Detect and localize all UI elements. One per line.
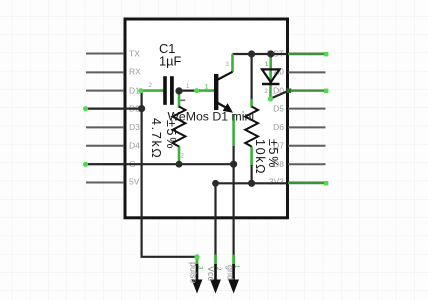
- transistor Q1 emitter lead: [217, 103, 228, 109]
- wire Vcc vertical and across 3V3 row (black): [216, 183, 288, 255]
- pin RX stub: [86, 71, 124, 73]
- green wire gnd drop: [232, 255, 235, 266]
- pin A0 stub: [288, 71, 325, 73]
- green wire 4.7k bottom lead: [178, 146, 181, 164]
- junction node 10k bottom 3V3: [248, 180, 255, 187]
- svg-text:3V3: 3V3: [269, 177, 284, 187]
- arrow pin Vcc: [210, 264, 221, 294]
- capacitor C1 minus mark: [180, 99, 185, 101]
- pin D4 stub: [86, 145, 124, 147]
- pin D0 stub: [288, 90, 325, 92]
- transistor Q1 emitter arrowhead: [223, 103, 233, 113]
- junction node D2: [138, 105, 145, 112]
- pin TX stub: [86, 53, 124, 55]
- pin 3V3 stub: [288, 181, 325, 183]
- green wire base segment: [197, 89, 215, 92]
- endpoint D1 wire start: [138, 88, 143, 93]
- arrow pin pulse: [192, 264, 203, 294]
- green wire diode through lead: [269, 54, 272, 99]
- endpoint diode bottom: [268, 96, 273, 101]
- wire pulse: D2 junction down and right (black): [142, 109, 197, 257]
- capacitor C1 plates: [163, 76, 185, 105]
- pin D8 stub: [288, 163, 325, 165]
- green wire emitter to gnd: [232, 114, 235, 146]
- right pin labels: [267, 48, 284, 186]
- pin D6 stub: [288, 126, 325, 128]
- svg-text:D4: D4: [129, 140, 140, 150]
- green wire 4.7k top lead: [178, 91, 181, 108]
- green wire RST stub out: [288, 53, 326, 55]
- svg-text:TX: TX: [129, 48, 140, 58]
- resistor R1 4.7k zigzag: [173, 107, 186, 147]
- wire D2 pin to junction (black): [86, 107, 142, 109]
- endpoint RST stub: [324, 52, 328, 56]
- wire C1 right plate to base wire (black): [179, 89, 197, 91]
- endpoint D0 edge node: [287, 88, 292, 93]
- endpoint D2 wire: [83, 106, 88, 111]
- pin D1 stub: [86, 90, 124, 92]
- pin D2 stub: [86, 108, 124, 110]
- diode D1 triangle: [262, 69, 280, 82]
- green wire D1 label to C1 left plate: [141, 89, 165, 92]
- label R2 value 10k (rotated): [253, 139, 280, 175]
- svg-text:5V: 5V: [129, 177, 140, 187]
- green wire D0 stub out: [289, 89, 326, 91]
- wire G pin to gnd junction (black): [86, 163, 234, 165]
- svg-text:1µF: 1µF: [159, 54, 181, 69]
- wire 10k top lead (black): [251, 54, 253, 100]
- transistor Q1 collector lead: [217, 72, 233, 80]
- svg-text:D6: D6: [273, 122, 284, 132]
- op-amp U1 WeMos D1 mini body rectangle: [125, 19, 288, 218]
- endpoint base wire: [194, 88, 199, 93]
- resistor R2 10k zigzag: [245, 107, 258, 147]
- transistor Q1 base bar: [214, 74, 218, 110]
- diode D1 cathode bar: [262, 83, 280, 86]
- endpoint D0 stub: [324, 89, 328, 93]
- endpoint G wire: [83, 162, 88, 167]
- diode D1 (to RST): [262, 69, 280, 84]
- junction node diode top RST rail: [267, 50, 274, 57]
- arrow pin gnd: [228, 264, 239, 294]
- pin G stub: [86, 163, 124, 165]
- green wire pulse drop: [196, 256, 199, 266]
- pin D5 stub: [288, 108, 325, 110]
- green wire 3V3 stub out: [288, 182, 326, 184]
- wire RST top rail (black): [233, 53, 288, 55]
- junction node 10k top RST rail: [248, 50, 255, 57]
- green wire collector vertical: [231, 54, 234, 72]
- wire 10k bottom black to 3V3 junction: [251, 165, 253, 183]
- pin D3 stub: [86, 126, 124, 128]
- green wire 10k top lead: [250, 99, 253, 108]
- endpoint 3V3 stub: [324, 181, 328, 185]
- pin D7 stub: [288, 145, 325, 147]
- pin 5V stub: [86, 181, 124, 183]
- svg-text:D3: D3: [129, 122, 140, 132]
- svg-text:D5: D5: [273, 103, 284, 113]
- wire D1 drop to D2 junction (black): [141, 91, 143, 109]
- junction node 4.7k bottom: [176, 161, 183, 168]
- left pin labels: [129, 48, 141, 186]
- endpoint pulse corner: [194, 254, 199, 259]
- wire gnd vertical (black): [233, 145, 235, 256]
- junction node at 4.7k top / C1 right: [175, 87, 182, 94]
- label R1 value 4.7k (rotated): [149, 118, 178, 159]
- junction node G / gnd: [230, 161, 237, 168]
- pin RST stub: [288, 53, 325, 55]
- svg-text:Vcc: Vcc: [206, 266, 216, 282]
- svg-text:WeMos D1 mini: WeMos D1 mini: [168, 110, 255, 124]
- transistor Q1 NPN: [214, 72, 233, 113]
- green wire 10k bottom lead: [250, 147, 253, 167]
- junction node Vcc corner: [212, 180, 219, 187]
- wire diode bottom diagonal to D0 (black): [270, 91, 289, 99]
- svg-text:RX: RX: [129, 67, 141, 77]
- green wire Vcc drop: [214, 255, 217, 266]
